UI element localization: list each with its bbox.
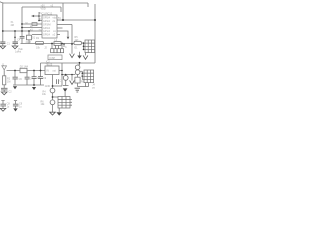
svg-text:ICSP: ICSP bbox=[50, 57, 56, 60]
wire loop corner stub bbox=[60, 7, 62, 12]
ground cap15 top bbox=[12, 46, 18, 49]
capacitor C2 plates bbox=[1, 88, 8, 90]
wire 86 bbox=[53, 85, 63, 87]
diode D1 box bbox=[27, 35, 32, 40]
grid2 pin column bbox=[82, 71, 84, 79]
wire bus bbox=[3, 30, 42, 32]
svg-text:IN: IN bbox=[47, 70, 50, 73]
wire gnd72mid stem bbox=[71, 75, 73, 81]
wire 5v corner drop bbox=[40, 63, 42, 71]
crystal X1 box bbox=[32, 23, 37, 26]
text labels (smudges) bbox=[2, 5, 96, 109]
grid1 pin ticks bbox=[84, 43, 86, 50]
wire cap27 drop bbox=[26, 71, 28, 86]
wire row 24 bbox=[22, 23, 42, 25]
wire grid3 right stubs bbox=[70, 99, 72, 105]
svg-text:4148: 4148 bbox=[26, 41, 32, 44]
capacitor C6 plates bbox=[13, 77, 18, 79]
wire top cap2 stem bbox=[2, 44, 4, 46]
ground filled grid3 bbox=[56, 112, 62, 115]
wire dot64 stub bbox=[63, 44, 65, 47]
ground z right bbox=[75, 88, 80, 92]
ground arrow x72 mid bbox=[70, 81, 75, 85]
ground r2 column bbox=[1, 92, 7, 95]
wire gnd rail bbox=[13, 84, 44, 86]
IC U1 box bbox=[42, 15, 57, 38]
wire top rail bbox=[3, 2, 88, 4]
wire d29 drop bbox=[28, 31, 30, 44]
wire riser x62 bbox=[61, 63, 63, 86]
wire reg in bbox=[7, 70, 46, 72]
connector grid J1 top right bbox=[85, 40, 95, 53]
power 5v triangle bbox=[77, 56, 81, 59]
wire led row 74 bbox=[62, 74, 75, 76]
svg-text:5V: 5V bbox=[58, 17, 61, 20]
svg-text:GND: GND bbox=[45, 85, 51, 88]
wire gnd72 stem bbox=[71, 44, 73, 54]
wire top rail stub down bbox=[87, 3, 89, 7]
svg-text:D2 1N4: D2 1N4 bbox=[20, 66, 29, 69]
wire mid row 43.5 bbox=[21, 43, 75, 45]
wire grid1 stem bbox=[85, 53, 87, 56]
connector grid J3 bottom mid bbox=[58, 97, 70, 109]
capacitor C10 plates bbox=[0, 104, 6, 106]
capacitor C4 plates bbox=[13, 42, 19, 44]
ground arrow grid1 bbox=[83, 55, 88, 59]
svg-text:IC1 PIC12: IC1 PIC12 bbox=[41, 12, 53, 15]
wire vertical to junction bbox=[62, 3, 64, 20]
wire led stack to grid3 bbox=[53, 96, 59, 98]
capacitor C5 plates bbox=[20, 36, 25, 38]
connector grid J2 mid right bbox=[84, 70, 94, 83]
antenna input bbox=[2, 66, 7, 71]
wire vertical x72 bbox=[71, 25, 73, 45]
ground filled rail34 bbox=[32, 87, 36, 90]
capacitor C11 plates bbox=[13, 104, 19, 106]
capacitor C9 plates bbox=[38, 77, 43, 79]
resistor R5 bbox=[74, 41, 81, 44]
wire cap x15 top drop bbox=[14, 31, 16, 46]
LED DL2 circle bbox=[50, 100, 55, 105]
wire row 20 bbox=[57, 19, 95, 21]
arrow head left row16 bbox=[32, 15, 35, 17]
wire r5 to grid bbox=[81, 42, 83, 44]
wire row 27 bbox=[22, 27, 42, 29]
LED DL1 circle bbox=[50, 88, 55, 93]
wire right vertical bbox=[94, 4, 96, 63]
svg-text:4k7: 4k7 bbox=[75, 39, 80, 42]
wire reg out bbox=[59, 70, 62, 72]
wire reg gnd bbox=[52, 75, 54, 87]
wire gnd76 stems bbox=[77, 75, 79, 87]
wire icsp drops bbox=[52, 44, 62, 49]
wire led circle right stem bbox=[65, 75, 67, 86]
svg-text:out: out bbox=[53, 70, 57, 73]
pin ticks connector col bbox=[39, 13, 41, 19]
wire bottom cap3 stem bbox=[1, 101, 4, 109]
wire cap40 drop bbox=[40, 71, 42, 86]
junction dots bbox=[2, 15, 96, 98]
component box right mid bbox=[75, 77, 80, 83]
ground led stack bbox=[50, 112, 56, 115]
component box on wire bbox=[54, 42, 61, 46]
wire left vertical bbox=[2, 3, 4, 42]
arrow head down x68 bbox=[67, 37, 70, 40]
wire pin31 right bbox=[57, 31, 68, 37]
svg-text:VDD: VDD bbox=[41, 8, 46, 11]
wire led2 stem bbox=[52, 105, 54, 112]
wire cap15 drop bbox=[14, 71, 16, 86]
connector pin column bbox=[38, 12, 40, 21]
wire 86 right bbox=[78, 86, 89, 88]
wire led1 stack bbox=[52, 86, 54, 100]
capacitor vertical bars bbox=[57, 79, 59, 84]
wire box loop left bbox=[21, 7, 23, 31]
ground flat bar bbox=[63, 85, 69, 87]
ground filled cap15 rail bbox=[13, 56, 82, 116]
wire pin24 right bbox=[57, 24, 72, 26]
transistor circle right bbox=[75, 65, 80, 70]
capacitor C1 plates bbox=[0, 36, 43, 106]
wire dark tri5v stem bbox=[79, 52, 81, 56]
wire pin34 stub bbox=[57, 34, 60, 36]
series diode box bbox=[20, 68, 27, 72]
wire stub to grid2 bbox=[80, 70, 82, 72]
ground bottom cap3 bbox=[0, 108, 6, 111]
ICSP label box bbox=[48, 55, 62, 60]
svg-text:78L05: 78L05 bbox=[46, 64, 53, 67]
ground filled bottom cap15 bbox=[13, 108, 17, 111]
wire r2 column bbox=[3, 71, 5, 92]
voltage regulator box bbox=[45, 66, 59, 75]
resistor R1 bbox=[36, 41, 44, 44]
wire pin28 stub bbox=[57, 27, 63, 29]
transistor circle lower bbox=[75, 70, 80, 75]
power dark triangle grid3 bbox=[63, 88, 68, 92]
svg-text:GP0/A: GP0/A bbox=[43, 33, 50, 36]
svg-text:int: int bbox=[19, 50, 22, 53]
wire grid2 legs bbox=[86, 83, 89, 87]
wire grid3 legs bbox=[58, 108, 60, 112]
wire cap22 drop bbox=[21, 31, 23, 44]
wire elbow to transistor bbox=[78, 63, 80, 65]
ICSP connector row bbox=[51, 49, 64, 53]
wire darktri stem bbox=[64, 92, 66, 97]
svg-text:1M: 1M bbox=[7, 81, 10, 84]
wire arrow row bbox=[32, 15, 40, 17]
wire 5v row 62.5 bbox=[41, 62, 96, 64]
wire cap34 drop bbox=[33, 71, 35, 86]
resistor R2 vertical bbox=[3, 76, 6, 85]
wire stub y20.5 bbox=[39, 20, 42, 22]
rail lead-in bbox=[0, 2, 3, 3]
svg-text:M: M bbox=[26, 22, 28, 25]
ground arrow x72 bbox=[70, 54, 88, 92]
wire bottom cap15 stem bbox=[14, 101, 17, 109]
wire box loop top bbox=[22, 6, 61, 8]
ground left top bbox=[0, 46, 55, 115]
svg-text:4M: 4M bbox=[11, 24, 14, 27]
wire stub y34.5 left bbox=[32, 34, 42, 36]
capacitor C7 plates bbox=[25, 77, 30, 79]
LED DL3 circle bbox=[63, 76, 68, 81]
capacitor C8 plates bbox=[32, 77, 37, 79]
